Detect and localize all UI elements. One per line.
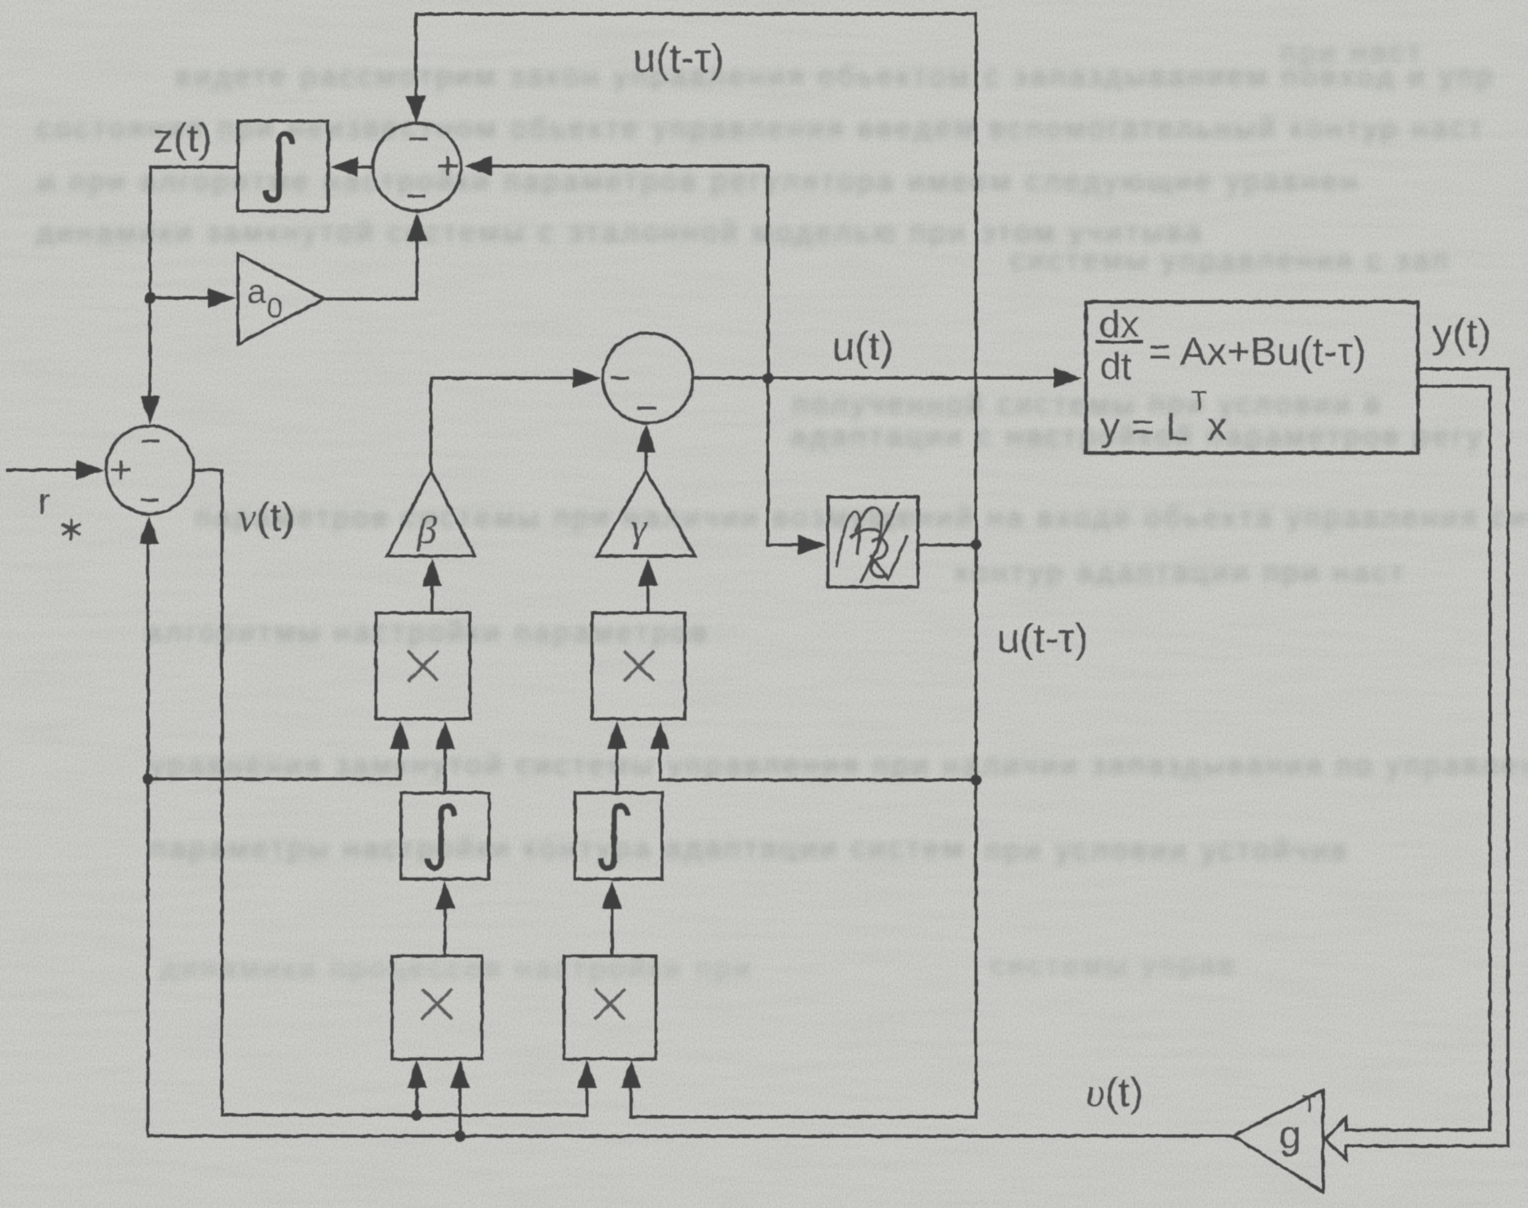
- plant block: [1086, 302, 1418, 453]
- wire: bus2 u(t-tau) to M2 right: [660, 747, 976, 780]
- arrow into sum2 top: [140, 396, 160, 424]
- summing junction S3: [603, 333, 693, 423]
- arrow into I2 bottom: [435, 881, 455, 909]
- svg-text:состояния при неизвестном обье: состояния при неизвестном обьекте управл…: [36, 112, 1485, 145]
- arrow into sum3 left: [573, 368, 601, 388]
- I2 integral glyph: [428, 806, 454, 868]
- wire: M2 output to gamma: [647, 584, 650, 613]
- S1 sign minus top: [411, 138, 426, 141]
- svg-text:контур адаптации при наст: контур адаптации при наст: [955, 556, 1407, 589]
- svg-text:0: 0: [267, 292, 283, 323]
- wire: stem to M3 right: [459, 1086, 462, 1136]
- summing junction S1: [373, 123, 461, 211]
- svg-text:параметры настройки контура ад: параметры настройки контура адаптации си…: [150, 832, 966, 865]
- arrow into delay block: [798, 535, 826, 555]
- S3 sign minus bottom: [639, 407, 655, 410]
- arrow into beta base: [422, 558, 442, 586]
- svg-text:u(t): u(t): [832, 323, 894, 369]
- wire: M3 output to I2: [444, 907, 447, 956]
- S2 sign minus bottom: [142, 499, 157, 502]
- integrator I3 box: [575, 793, 662, 879]
- arrow into M4 right: [621, 1060, 641, 1088]
- plant fraction bar: [1097, 341, 1142, 344]
- svg-text:при наст: при наст: [1280, 36, 1424, 69]
- node on u(t-tau) vertical at bus2: [971, 775, 982, 786]
- svg-text:уравнения замкнутой системы уп: уравнения замкнутой системы управления п…: [150, 749, 1528, 782]
- arrow into M4 left: [577, 1060, 597, 1088]
- svg-text:a: a: [247, 273, 266, 311]
- node on upsilon vertical for bus1: [143, 774, 154, 785]
- wire: sum1 output to integrator I1: [356, 166, 373, 169]
- svg-text:T: T: [1302, 1091, 1317, 1118]
- svg-text:системы управ: системы управ: [990, 949, 1237, 982]
- wire: beta output to sum3 left: [431, 378, 575, 471]
- multiplier M3 box: [392, 956, 482, 1059]
- svg-text:r: r: [38, 481, 50, 522]
- svg-text:u(t-τ): u(t-τ): [633, 35, 724, 81]
- gain gT triangle: [1233, 1090, 1323, 1192]
- svg-text:ν(t): ν(t): [238, 494, 295, 540]
- wire: M1 output to beta: [431, 584, 434, 613]
- node on upsilon line for M3 right stem: [455, 1131, 466, 1142]
- wire: u(t) from sum3 to plant: [693, 377, 1056, 380]
- svg-text:T: T: [1191, 386, 1208, 416]
- arrow into a0: [208, 288, 236, 308]
- M4 cross: [596, 990, 624, 1018]
- wire: delay output to u(t-tau) vertical: [918, 544, 976, 547]
- wire: a0 output up into sum1 bottom: [324, 239, 417, 299]
- svg-text:y = L: y = L: [1100, 405, 1188, 449]
- arrow into sum1 bottom: [407, 213, 427, 241]
- arrow into I3 bottom: [602, 881, 622, 909]
- wire: branch to a0: [150, 297, 210, 300]
- wire: I2 output to M1 right: [444, 747, 447, 793]
- wire: u(t-tau) top feedback, right vertical and lower bus to M4 right input: [631, 14, 976, 1117]
- wire: top horizontal to sum1: [416, 14, 976, 98]
- node on nu bus for M3 left stem: [412, 1110, 423, 1121]
- svg-text:алгоритмы настройки параметров: алгоритмы настройки параметров: [145, 616, 710, 649]
- svg-text:dt: dt: [1100, 346, 1132, 388]
- wire: upsilon(t) line from gT to sum2 bottom: [148, 542, 1233, 1136]
- S2 sign minus top: [143, 440, 158, 443]
- svg-text:dx: dx: [1099, 304, 1139, 346]
- plant equation line 1: [1099, 304, 1366, 449]
- svg-text:υ(t): υ(t): [1086, 1069, 1144, 1115]
- arrow into sum1 right: [464, 156, 492, 176]
- svg-text:y(t): y(t): [1432, 310, 1491, 356]
- node A on z(t) line: [145, 293, 156, 304]
- svg-text:= Ax+Bu(t-τ): = Ax+Bu(t-τ): [1148, 330, 1366, 374]
- arrow into sum3 bottom: [636, 424, 656, 452]
- svg-text:и при алгоритме настройки пара: и при алгоритме настройки параметров рег…: [38, 165, 1360, 198]
- arrow into M3 left: [407, 1060, 427, 1088]
- arrow into M3 right: [450, 1060, 470, 1088]
- node: tap junction on u(t) line: [763, 373, 774, 384]
- svg-text:∗: ∗: [57, 510, 86, 548]
- delay scribble glyph: [837, 504, 907, 582]
- svg-text:при условии устойчив: при условии устойчив: [985, 834, 1350, 867]
- wire: reference input r: [8, 469, 78, 472]
- M1 cross: [409, 652, 437, 680]
- arrow into sum1 top: [406, 96, 426, 124]
- svg-text:γ: γ: [631, 505, 648, 550]
- arrow into M2 left: [607, 721, 627, 749]
- I1 integral glyph: [266, 134, 292, 200]
- arrow into sum2 left: [76, 460, 104, 480]
- arrow into sum2 bottom: [139, 516, 159, 544]
- wire: gamma output to sum3 bottom: [645, 450, 648, 471]
- multiplier M1 box: [376, 613, 470, 719]
- svg-text:z(t): z(t): [153, 115, 212, 161]
- multiplier M2 box: [592, 613, 685, 719]
- open vector arrowhead into gT: [1325, 1118, 1346, 1159]
- wire: M4 output to I3: [611, 907, 614, 956]
- integrator I2 box: [401, 793, 489, 879]
- M3 cross: [423, 990, 451, 1018]
- summing junction S2: [106, 426, 194, 514]
- I3 integral glyph: [601, 806, 627, 868]
- S1 sign minus bottom: [409, 195, 424, 198]
- svg-text:g: g: [1279, 1113, 1301, 1157]
- arrow into M1 left: [390, 721, 410, 749]
- wire: nu(t) from sum2 right, down, bottom bus to M3/M4 left inputs: [194, 470, 587, 1115]
- wire: z(t) from I1 down to sum2: [150, 167, 238, 398]
- svg-text:x: x: [1207, 405, 1227, 449]
- arrow into M2 right: [650, 721, 670, 749]
- node: delay output junction: [971, 540, 982, 551]
- S1 sign plus right: [440, 158, 456, 174]
- arrow into plant: [1054, 368, 1082, 388]
- gain gamma triangle: [597, 471, 695, 556]
- integrator I1 box: [238, 121, 328, 211]
- S2 sign plus left: [113, 462, 129, 478]
- arrow into gamma base: [638, 558, 658, 586]
- wire: y(t) inner feedback line: [1348, 386, 1490, 1130]
- wire: y(t) outer feedback line: [1348, 369, 1508, 1146]
- wire: sum1 right input from tap: [490, 166, 800, 545]
- ghost bleed-through text (decorative): [36, 36, 1528, 985]
- wire: bus1 upsilon to M1 left: [148, 747, 400, 779]
- wire: I3 output to M2 left: [616, 747, 619, 793]
- svg-text:u(t-τ): u(t-τ): [997, 615, 1088, 661]
- arrow into M1 right: [435, 721, 455, 749]
- svg-text:β: β: [416, 507, 437, 552]
- S3 sign minus left: [612, 377, 628, 380]
- wire: stem to M3 left: [416, 1086, 419, 1115]
- gain a0 triangle: [238, 254, 324, 344]
- M2 cross: [625, 652, 653, 680]
- arrow into I1 right edge: [330, 157, 358, 177]
- delay block: [828, 497, 918, 587]
- multiplier M4 box: [564, 956, 656, 1059]
- svg-text:системы управления с зап: системы управления с зап: [1010, 244, 1451, 277]
- gain beta triangle: [387, 471, 475, 556]
